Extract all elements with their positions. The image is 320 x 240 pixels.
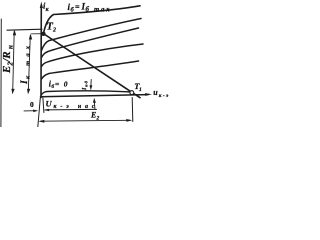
svg-text:/R: /R — [1, 51, 13, 62]
svg-text:I: I — [20, 80, 30, 85]
svg-text:E: E — [1, 66, 13, 74]
svg-text:u: u — [153, 88, 158, 97]
svg-text:2: 2 — [52, 28, 56, 34]
svg-text:б: б — [51, 83, 54, 90]
svg-text:к-0: к-0 — [83, 80, 88, 87]
svg-text:1: 1 — [139, 87, 142, 93]
svg-text:U: U — [46, 98, 53, 108]
svg-text:н: н — [6, 45, 14, 49]
svg-text:E: E — [90, 111, 96, 120]
svg-text:0: 0 — [30, 100, 34, 109]
svg-text:2: 2 — [96, 115, 100, 121]
svg-text:=: = — [75, 3, 80, 12]
svg-text:к-э: к-э — [159, 93, 169, 99]
